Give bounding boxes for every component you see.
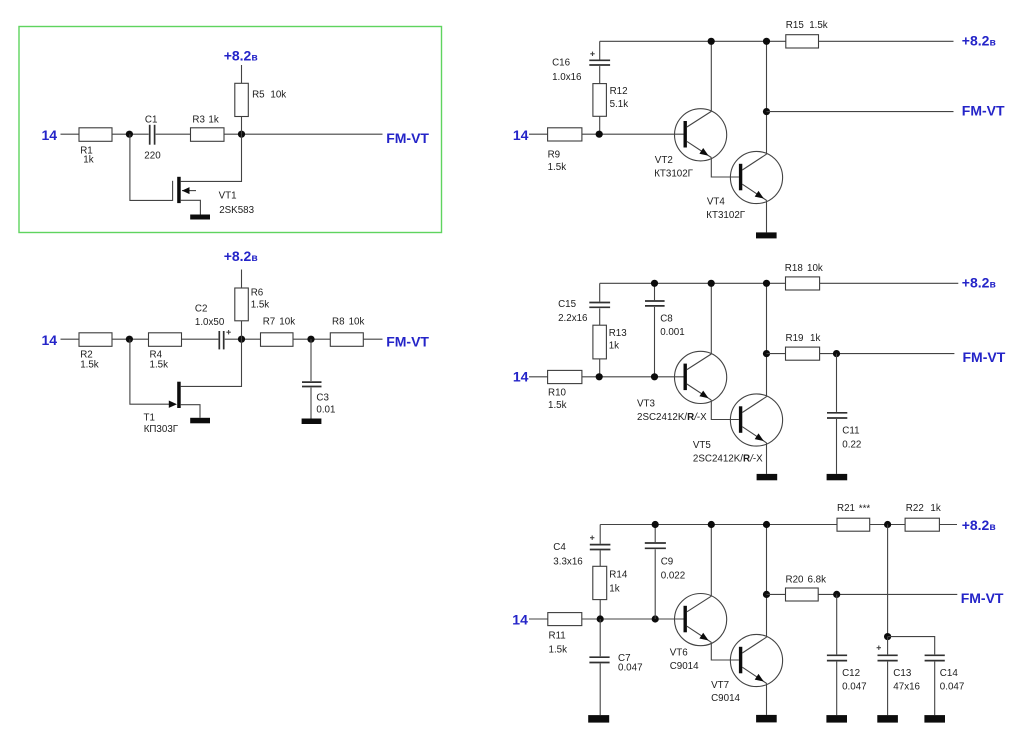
node I junction xyxy=(833,350,840,357)
svg-text:КТ3102Г: КТ3102Г xyxy=(706,210,745,221)
svg-text:R6: R6 xyxy=(251,288,264,299)
green frame xyxy=(19,27,442,233)
transistor VT1 drain wire xyxy=(181,134,242,181)
svg-text:1.5k: 1.5k xyxy=(80,360,99,371)
capacitor C15 xyxy=(589,302,610,304)
capacitor C8 xyxy=(654,283,656,300)
capacitor C9 xyxy=(654,525,656,543)
node K junction xyxy=(652,615,659,622)
svg-text:FM-VT: FM-VT xyxy=(961,590,1004,606)
wire 14 to R11 xyxy=(529,618,548,620)
svg-text:47x16: 47x16 xyxy=(893,681,920,692)
svg-text:0.047: 0.047 xyxy=(842,681,867,692)
resistor R18 xyxy=(786,277,820,290)
wire gate from node A xyxy=(130,134,173,200)
wire R6 bottom to node D xyxy=(241,321,243,339)
resistor R4 xyxy=(149,333,182,347)
node M junction xyxy=(833,591,840,598)
wire VT4 collector to rail xyxy=(766,41,768,154)
svg-text:C9014: C9014 xyxy=(670,661,699,672)
svg-text:0.22: 0.22 xyxy=(842,440,861,451)
transistor VT1 gate line xyxy=(172,181,174,201)
transistor VT7 xyxy=(730,634,782,686)
svg-text:R13: R13 xyxy=(609,328,628,339)
resistor R6 xyxy=(235,288,249,321)
capacitor C13 xyxy=(887,637,889,655)
svg-text:220: 220 xyxy=(144,150,161,161)
capacitor C1 xyxy=(149,125,151,145)
wire VT3 emitter to VT5 base xyxy=(711,400,739,419)
ground VT5 xyxy=(757,474,778,480)
svg-text:0.047: 0.047 xyxy=(618,663,643,674)
svg-text:R3: R3 xyxy=(192,114,205,125)
resistor R14 xyxy=(593,566,607,599)
wire 14 to R10 xyxy=(529,376,548,378)
transistor VT5 xyxy=(730,394,782,446)
wire VT5 emitter to ground xyxy=(766,443,768,474)
wire 14 to R2 xyxy=(61,338,80,340)
resistor R5 xyxy=(235,83,249,116)
transistor T1 drain wire xyxy=(181,339,242,386)
wire VT6 emitter to VT7 base xyxy=(711,642,739,660)
wire C1 to R3 xyxy=(156,133,191,135)
wire 14 to R1 xyxy=(61,133,80,135)
svg-text:10k: 10k xyxy=(807,263,823,274)
node J junction xyxy=(597,615,604,622)
node B junction xyxy=(238,131,245,138)
svg-text:R18: R18 xyxy=(785,263,804,274)
svg-text:КТ3102Г: КТ3102Г xyxy=(654,169,693,180)
svg-text:C16: C16 xyxy=(552,57,571,68)
capacitor C7 xyxy=(599,619,601,656)
svg-text:1.5k: 1.5k xyxy=(549,645,568,656)
svg-text:VT2: VT2 xyxy=(655,155,673,166)
capacitor C4 xyxy=(590,544,611,546)
resistor R21 xyxy=(837,518,870,531)
node E junction xyxy=(307,336,314,343)
junction FM-VT VT4 xyxy=(763,108,770,115)
svg-text:VT6: VT6 xyxy=(670,648,689,659)
wire R5 top to +8.2v xyxy=(241,65,243,83)
wire R10 to VT3 base xyxy=(582,376,684,378)
CIRCUIT4 xyxy=(513,263,1006,480)
svg-text:10k: 10k xyxy=(270,90,286,101)
ground C3 xyxy=(302,419,322,425)
capacitor C11 xyxy=(836,354,838,412)
ground C13 xyxy=(877,715,898,723)
svg-text:2.2x16: 2.2x16 xyxy=(558,313,588,324)
svg-text:5.1k: 5.1k xyxy=(610,99,629,110)
ground VT1 xyxy=(190,215,210,220)
svg-text:2SC2412K/R/-X: 2SC2412K/R/-X xyxy=(637,412,707,423)
resistor R11 xyxy=(548,613,582,626)
wire R19 to FM-VT xyxy=(820,353,955,355)
node D junction xyxy=(238,336,245,343)
svg-text:10k: 10k xyxy=(279,316,295,327)
svg-text:14: 14 xyxy=(42,127,58,143)
svg-text:R10: R10 xyxy=(548,387,567,398)
svg-text:C9: C9 xyxy=(661,556,674,567)
wire VT2 emitter to VT4 base xyxy=(711,158,739,178)
svg-text:6.8k: 6.8k xyxy=(808,575,827,586)
wire R8 to FM-VT xyxy=(363,338,382,340)
wire VT7 emitter to ground xyxy=(766,683,768,715)
node G junction xyxy=(596,373,603,380)
wire R12 to node F xyxy=(599,116,601,134)
svg-text:FM-VT: FM-VT xyxy=(963,349,1006,365)
ground C11 xyxy=(827,474,848,480)
svg-text:1.5k: 1.5k xyxy=(548,400,567,411)
wire R15 to +8.2v xyxy=(819,40,954,42)
transistor VT1 source wire xyxy=(181,200,201,214)
ground VT4 xyxy=(756,232,777,238)
resistor R10 xyxy=(548,370,582,383)
svg-text:1.5k: 1.5k xyxy=(251,299,270,310)
svg-text:C4: C4 xyxy=(553,542,566,553)
supply rail wire xyxy=(600,524,837,526)
wire VT7 collector to rail xyxy=(766,525,768,638)
svg-text:1.0x16: 1.0x16 xyxy=(552,72,582,83)
wire R9 to VT2 base xyxy=(582,133,684,135)
svg-text:C12: C12 xyxy=(842,668,860,679)
svg-text:0.01: 0.01 xyxy=(316,405,335,416)
svg-text:C1: C1 xyxy=(145,114,158,125)
wire R3 to FM-VT xyxy=(224,133,383,135)
svg-text:R14: R14 xyxy=(609,570,628,581)
ground VT7 xyxy=(756,715,777,723)
wire R18 to +8.2v xyxy=(820,282,959,284)
node A junction xyxy=(126,131,133,138)
svg-text:R9: R9 xyxy=(548,149,561,160)
svg-text:14: 14 xyxy=(513,127,529,143)
wire VT6 collector to rail xyxy=(710,525,712,597)
svg-text:1k: 1k xyxy=(609,583,619,594)
svg-text:C15: C15 xyxy=(558,299,577,310)
wire R14 to node J xyxy=(599,600,601,619)
ground T1 xyxy=(190,418,210,424)
resistor R22 xyxy=(905,518,939,531)
resistor R9 xyxy=(548,128,582,141)
resistor R15 xyxy=(786,35,819,48)
wire node to R20 xyxy=(767,593,786,595)
svg-text:C3: C3 xyxy=(316,393,329,404)
wire rail corner to C4 xyxy=(599,525,601,544)
svg-text:1k: 1k xyxy=(810,333,820,344)
resistor R20 xyxy=(786,588,819,601)
svg-text:R22: R22 xyxy=(906,503,924,514)
wire R21 node down xyxy=(887,525,889,637)
junction rail VT2 xyxy=(708,38,715,45)
svg-text:C11: C11 xyxy=(842,426,859,437)
wire R11 to VT6 base xyxy=(582,618,684,620)
resistor R7 xyxy=(261,333,294,347)
capacitor C3 xyxy=(310,339,312,381)
svg-text:R21: R21 xyxy=(837,503,855,514)
svg-text:1.5k: 1.5k xyxy=(809,20,828,31)
transistor VT2 xyxy=(675,109,727,161)
node F junction xyxy=(596,131,603,138)
transistor T1 source wire xyxy=(181,405,200,418)
junction rail VT6 xyxy=(708,521,715,528)
svg-text:***: *** xyxy=(859,504,871,515)
wire VT2 collector to rail xyxy=(710,41,712,111)
svg-text:R12: R12 xyxy=(610,86,628,97)
wire 14 to R9 xyxy=(529,133,548,135)
svg-text:FM-VT: FM-VT xyxy=(386,334,429,350)
node L junction xyxy=(884,521,891,528)
wire R1 to C1 xyxy=(112,133,149,135)
svg-text:T1: T1 xyxy=(144,413,155,424)
transistor VT6 xyxy=(675,594,727,646)
junction rail VT5 xyxy=(763,280,770,287)
wire rail corner to C16 xyxy=(599,41,601,59)
supply rail wire xyxy=(600,40,786,42)
svg-text:R20: R20 xyxy=(786,575,805,586)
wire R7 to R8 xyxy=(293,338,330,340)
svg-text:R8: R8 xyxy=(332,316,345,327)
svg-text:R19: R19 xyxy=(786,333,804,344)
net FM-VT wire xyxy=(767,111,954,113)
wire C15 to R13 xyxy=(599,308,601,325)
svg-text:VT5: VT5 xyxy=(693,440,712,451)
svg-text:1k: 1k xyxy=(609,341,619,352)
svg-text:VT3: VT3 xyxy=(637,398,656,409)
svg-text:C2: C2 xyxy=(195,303,208,314)
svg-text:0.022: 0.022 xyxy=(661,570,686,581)
svg-text:1.0x50: 1.0x50 xyxy=(195,317,225,328)
svg-text:R7: R7 xyxy=(263,316,276,327)
wire R2 to R4 xyxy=(112,338,149,340)
svg-text:0.001: 0.001 xyxy=(660,327,685,338)
svg-text:1k: 1k xyxy=(208,114,218,125)
svg-text:1.5k: 1.5k xyxy=(150,360,169,371)
wire VT5 collector to rail xyxy=(766,283,768,396)
capacitor C16 xyxy=(589,59,610,61)
junction rail VT7 xyxy=(763,521,770,528)
svg-text:10k: 10k xyxy=(349,316,365,327)
wire R22 to +8.2v xyxy=(939,524,957,526)
CIRCUIT3 xyxy=(513,20,1005,238)
wire C4 to R14 xyxy=(599,550,601,566)
ground C12 xyxy=(826,715,847,723)
svg-text:FM-VT: FM-VT xyxy=(386,130,429,146)
svg-text:2SK583: 2SK583 xyxy=(219,205,254,216)
transistor T1 gate arrow xyxy=(169,401,177,408)
svg-text:VT7: VT7 xyxy=(711,680,729,691)
svg-text:C9014: C9014 xyxy=(711,693,740,704)
svg-text:R5: R5 xyxy=(252,90,265,101)
svg-text:R11: R11 xyxy=(549,630,566,641)
capacitor C12 xyxy=(836,594,838,654)
CIRCUIT1 xyxy=(19,27,442,233)
wire VT4 emitter to ground xyxy=(766,200,768,232)
transistor VT1 channel bar xyxy=(177,177,181,203)
svg-text:2SC2412K/R/-X: 2SC2412K/R/-X xyxy=(693,454,763,465)
wire C2 to node D xyxy=(225,338,261,340)
svg-text:14: 14 xyxy=(512,612,528,628)
CIRCUIT5 xyxy=(512,503,1004,722)
svg-text:1k: 1k xyxy=(83,155,93,166)
junction FM-VT VT7 xyxy=(763,591,770,598)
transistor VT1 arrow xyxy=(182,190,196,192)
junction rail VT4 xyxy=(763,38,770,45)
svg-text:3.3x16: 3.3x16 xyxy=(553,557,583,568)
ground C7 xyxy=(588,715,609,723)
wire R13 to node G xyxy=(599,359,601,377)
resistor R2 xyxy=(79,333,112,347)
svg-text:0.047: 0.047 xyxy=(940,681,965,692)
junction R19 line xyxy=(763,350,770,357)
svg-text:14: 14 xyxy=(513,368,529,384)
wire R4 to C2 xyxy=(182,338,219,340)
resistor R19 xyxy=(786,347,820,360)
capacitor C2 xyxy=(218,331,220,349)
wire R21 to R22 xyxy=(870,524,905,526)
svg-text:C8: C8 xyxy=(660,314,673,325)
node H junction xyxy=(651,373,658,380)
resistor R13 xyxy=(593,325,607,359)
svg-text:R15: R15 xyxy=(786,20,805,31)
wire R5 bottom to node B xyxy=(241,117,243,135)
svg-text:C13: C13 xyxy=(893,668,912,679)
supply rail wire xyxy=(600,282,786,284)
wire R6 top to +8.2v xyxy=(241,270,243,289)
svg-text:FM-VT: FM-VT xyxy=(962,102,1005,118)
svg-text:VT1: VT1 xyxy=(219,190,237,201)
transistor T1 channel bar xyxy=(177,382,181,408)
node C junction xyxy=(126,336,133,343)
wire branch to C14 xyxy=(888,637,935,655)
resistor R1 xyxy=(79,128,112,142)
wire R20 to FM-VT xyxy=(818,593,957,595)
wire VT3 collector to rail xyxy=(710,283,712,354)
resistor R3 xyxy=(191,128,225,142)
node N junction xyxy=(884,633,891,640)
ground C14 xyxy=(924,715,945,723)
svg-text:1k: 1k xyxy=(930,503,940,514)
junction rail VT3 xyxy=(708,280,715,287)
svg-text:C14: C14 xyxy=(940,668,959,679)
svg-text:КП303Г: КП303Г xyxy=(144,424,179,435)
svg-text:VT4: VT4 xyxy=(707,197,726,208)
wire node to R19 xyxy=(767,353,786,355)
wire rail corner to C15 xyxy=(599,283,601,301)
CIRCUIT2 xyxy=(42,248,430,435)
resistor R8 xyxy=(330,333,363,347)
wire C16 to R12 xyxy=(599,66,601,84)
transistor VT4 xyxy=(730,151,782,203)
junction rail C8 xyxy=(651,280,658,287)
resistor R12 xyxy=(593,84,607,117)
wire gate from node C xyxy=(130,339,172,404)
svg-text:1.5k: 1.5k xyxy=(548,162,567,173)
transistor VT3 xyxy=(675,351,727,403)
svg-text:14: 14 xyxy=(42,332,58,348)
junction rail C9 xyxy=(652,521,659,528)
capacitor C14 xyxy=(925,654,945,656)
